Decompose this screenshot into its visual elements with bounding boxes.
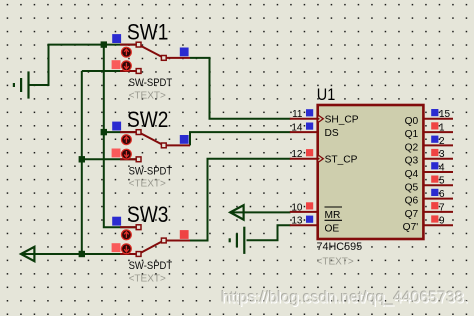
wire: SW2 bottom throw branch <box>82 158 136 160</box>
junction: input net at terminal wire <box>79 251 85 257</box>
svg-text:<TEXT>: <TEXT> <box>129 179 166 190</box>
ground (left, for switch top throws) <box>14 71 29 98</box>
pin 6 (Q6) <box>405 189 453 207</box>
svg-text:Q7': Q7' <box>403 222 419 233</box>
svg-text:SW2: SW2 <box>127 108 168 133</box>
svg-text:<TEXT>: <TEXT> <box>129 273 166 284</box>
svg-text:<TEXT>: <TEXT> <box>317 257 354 268</box>
pin 5 (Q5) <box>405 176 453 194</box>
pin 11 (SH_CP) <box>290 109 359 126</box>
svg-text:SH_CP: SH_CP <box>325 115 359 126</box>
svg-text:Q2: Q2 <box>405 142 419 153</box>
svg-text:Q3: Q3 <box>405 156 419 167</box>
wire: input bus vertical <box>81 71 83 254</box>
switch SW2 (SW-SPDT) <box>112 108 190 190</box>
pin 14 (DS) <box>290 123 339 140</box>
svg-text:5: 5 <box>439 176 445 187</box>
pin 7 (Q7) <box>405 202 453 220</box>
pin 4 (Q4) <box>405 162 453 180</box>
svg-text:1: 1 <box>439 123 445 134</box>
svg-text:2: 2 <box>439 136 445 147</box>
svg-text:MR: MR <box>325 210 341 221</box>
wire: MR terminal to pin 10 <box>231 211 291 213</box>
wire: SW3 common to ST_CP pin 12 <box>190 159 291 241</box>
input terminal arrow (to switch bottom throws) <box>21 247 34 261</box>
pin 13 (OE) <box>290 216 342 235</box>
svg-text:12: 12 <box>291 149 303 160</box>
svg-text:15: 15 <box>439 109 451 120</box>
svg-text:Q0: Q0 <box>405 116 419 127</box>
switch SW3 (SW-SPDT) <box>112 203 190 285</box>
svg-text:SW-SPDT: SW-SPDT <box>129 78 173 90</box>
junction: GND net at SW2 top <box>101 129 107 135</box>
pin 15 (Q0) <box>405 109 453 127</box>
svg-text:14: 14 <box>291 123 303 134</box>
svg-text:U1: U1 <box>317 86 335 104</box>
pin 10 (MR) <box>290 202 342 221</box>
ground (at OE pin 13) <box>230 227 245 254</box>
svg-text:SW-SPDT: SW-SPDT <box>129 261 173 273</box>
IC U1 74HC595 body <box>318 105 424 239</box>
svg-text:Q5: Q5 <box>405 182 419 193</box>
svg-text:74HC595: 74HC595 <box>317 241 363 253</box>
svg-text:4: 4 <box>439 162 445 173</box>
wire: left input terminal to SW3 bottom throw <box>22 253 136 255</box>
svg-text:DS: DS <box>325 128 339 139</box>
pin 1 (Q1) <box>405 122 453 140</box>
wire: ground to SW1 top throw (net GND) <box>29 45 137 85</box>
wire: SW1 bottom throw branch <box>82 70 136 72</box>
svg-text:ST_CP: ST_CP <box>325 155 358 166</box>
svg-text:<TEXT>: <TEXT> <box>129 90 166 101</box>
svg-text:Q4: Q4 <box>405 169 419 180</box>
svg-text:Q7: Q7 <box>405 209 419 220</box>
wire: SW2 common to DS pin 14 <box>190 132 291 145</box>
pin 12 (ST_CP) <box>290 149 358 166</box>
pin 3 (Q3) <box>405 149 453 167</box>
junction: GND net at SW1 top <box>101 41 107 47</box>
svg-text:9: 9 <box>439 216 445 227</box>
svg-text:13: 13 <box>291 216 303 227</box>
wire: GND bus branch to SW2 top throw <box>104 131 136 133</box>
svg-text:OE: OE <box>325 224 340 235</box>
wire: SW1 common to SH_CP pin 11 <box>190 58 291 119</box>
svg-text:SW-SPDT: SW-SPDT <box>129 166 173 178</box>
svg-text:Q6: Q6 <box>405 196 419 207</box>
svg-text:10: 10 <box>291 202 303 213</box>
switch SW1 (SW-SPDT) <box>112 20 190 101</box>
svg-text:SW1: SW1 <box>127 20 168 45</box>
junction: input net at SW2 bottom <box>79 156 85 162</box>
svg-text:SW3: SW3 <box>127 203 168 228</box>
wire: GND bus vertical down to SW3 top throw <box>104 45 136 228</box>
svg-text:11: 11 <box>292 109 303 120</box>
svg-text:3: 3 <box>439 149 445 160</box>
svg-text:Q1: Q1 <box>405 129 419 140</box>
svg-text:6: 6 <box>439 189 445 200</box>
input terminal arrow (to MR pin 10) <box>230 205 243 219</box>
svg-text:7: 7 <box>439 202 445 213</box>
pin 2 (Q2) <box>405 136 453 154</box>
wire: OE pin 13 to ground <box>247 225 291 240</box>
svg-text:https://blog.csdn.net/qq_44065: https://blog.csdn.net/qq_44065738. <box>221 290 468 307</box>
pin 9 (Q7') <box>403 215 453 233</box>
